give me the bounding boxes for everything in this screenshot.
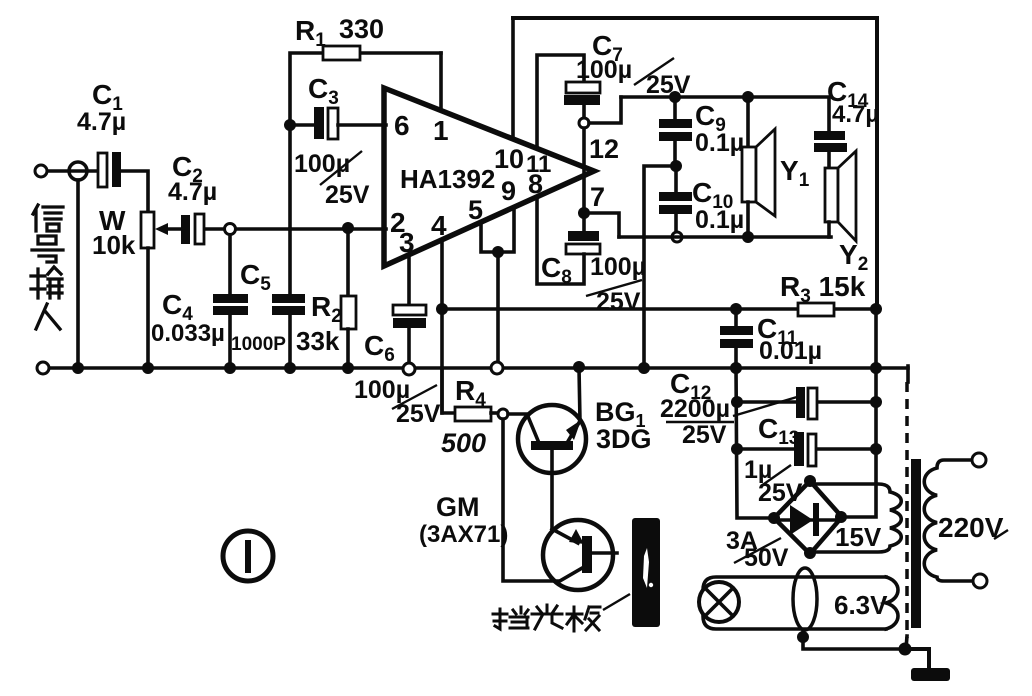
wire C2 to node [205,227,224,231]
speaker Y2 [825,168,838,222]
figure mark circled 1 [223,531,273,581]
transformer core [911,459,921,628]
svg-text:8: 8 [528,169,543,199]
junction W bottom [142,362,154,374]
transistor Q1 BG1 [518,405,586,473]
svg-text:4.7µ: 4.7µ [77,108,126,136]
pointer to shield [603,594,630,610]
wire lamp to ground [797,631,809,643]
svg-text:50V: 50V [744,544,789,572]
wire BG1 collector from rail [573,361,585,373]
capacitor C14 [814,131,845,140]
wire C1 to W [121,171,148,212]
capacitor C13 [731,443,743,455]
svg-text:4.7µ: 4.7µ [832,101,879,128]
pin7 node [578,207,590,219]
wire GM collector loop [503,419,558,581]
wire pin11 to C7 loop [537,55,584,147]
svg-text:4: 4 [431,210,447,241]
wire C4 bottom [228,315,232,368]
wire pin3 to C6 [407,256,411,305]
wire C7 to pin12 node [582,105,586,118]
capacitor C2 [181,215,190,244]
input connector circle [69,162,87,180]
lamp envelope ellipse [793,568,817,630]
svg-text:(3AX71): (3AX71) [419,521,508,548]
wire pin12 step to top rail [589,97,621,123]
svg-text:330: 330 [339,14,384,44]
wire pin10 to box [511,18,515,138]
junction C5 bottom [284,362,296,374]
svg-text:HA1392: HA1392 [400,164,495,194]
wire W bottom [146,248,150,368]
resistor R4 [442,368,455,413]
svg-text:15V: 15V [835,522,882,552]
wire node drop to C4 [228,235,232,294]
svg-text:25V: 25V [396,400,441,428]
bottom inner rail [619,235,831,239]
wire rail corner to shield [906,366,910,382]
pin12 node open circle [579,118,589,128]
bridge rectifier [774,481,842,554]
svg-text:100µ: 100µ [576,56,632,84]
capacitor C4 [213,294,248,303]
svg-text:0.01µ: 0.01µ [759,337,822,365]
svg-text:25V: 25V [646,71,691,99]
light shield bar [632,518,660,627]
wire C3 to pin6 [338,123,386,127]
wire right column [842,309,876,517]
capacitor C9 [669,91,681,103]
svg-text:3: 3 [399,227,415,258]
svg-text:10k: 10k [92,230,136,260]
svg-text:3DG: 3DG [596,424,652,454]
speaker Y1 [742,91,754,103]
diode inside bridge [779,518,837,522]
svg-text:6: 6 [394,110,410,141]
svg-text:7: 7 [590,182,605,212]
svg-text:100µ: 100µ [590,253,646,281]
svg-text:2200µ: 2200µ [660,395,730,423]
wire input to C1 [48,169,97,173]
feedback rail R3 [442,307,876,311]
svg-text:9: 9 [501,176,516,206]
wire U drop [496,252,500,362]
terminal 220V top [972,453,986,467]
capacitor C10 [674,166,678,192]
winding 15V secondary [809,484,901,552]
text light shield [493,605,600,631]
wire pin7 step down [584,213,619,237]
junction R2 bottom [342,362,354,374]
capacitor C3 [290,123,314,127]
svg-text:R3 15k: R3 15k [780,271,866,307]
text signal input vertical [31,205,63,329]
svg-text:100µ: 100µ [294,150,350,178]
node C3 tap [284,119,296,131]
capacitor C7 [566,82,600,93]
capacitor C5 [272,294,305,303]
svg-text:6.3V: 6.3V [834,590,888,620]
resistor R1 [359,51,441,55]
top rail 25V [621,97,829,131]
W wiper arrow [162,227,181,231]
svg-text:0.1µ: 0.1µ [695,129,744,157]
svg-text:5: 5 [468,195,483,225]
svg-text:1000P: 1000P [231,334,286,355]
ground [905,649,929,670]
wire pin4 vertical [440,241,444,413]
svg-text:12: 12 [589,134,619,164]
wire R1 left branch vertical [290,53,323,229]
box top wire pin10 route [513,18,877,309]
wire mid rail to pin2 [236,227,386,231]
wire node left drop [644,166,676,368]
svg-text:500: 500 [441,428,486,458]
wire C8 bottom to pin8 [537,197,584,284]
junction C4 bottom [224,362,236,374]
potentiometer W [141,212,154,248]
svg-text:25V: 25V [596,288,641,316]
transistor Q2 GM [543,520,613,590]
capacitor C12 [731,396,743,408]
shield dashed line [905,382,909,638]
junction input drop [72,362,84,374]
capacitor C1 [98,153,107,187]
wire C12 left column [736,368,774,518]
op-amp U1 HA1392 triangle [384,88,594,266]
svg-text:4.7µ: 4.7µ [168,178,217,206]
node C9 C10 [670,160,682,172]
wire input left drop [76,180,80,368]
svg-text:25V: 25V [682,421,727,449]
winding 220V primary [924,460,972,581]
svg-text:0.033µ: 0.033µ [151,320,225,347]
svg-text:GM: GM [436,492,480,522]
node input open circle [225,224,236,235]
lamp tube loop 6.3V [703,577,886,629]
node R4 right open circle [498,409,508,419]
bottom rail [49,366,908,370]
lamp [699,582,739,622]
pointer C12 label [733,397,797,416]
svg-text:1: 1 [433,115,449,146]
capacitor C6 [393,305,426,315]
svg-text:25V: 25V [325,181,370,209]
input terminal top [35,165,47,177]
svg-text:10: 10 [494,144,524,174]
capacitor C11 [730,303,742,315]
svg-text:25V: 25V [758,479,803,507]
wire pin5 pin9 U [481,208,514,252]
resistor R2 [342,222,354,234]
wire R1 right to pin1 [439,53,443,108]
capacitor C8 [582,213,586,232]
wire C5 vertical [288,229,292,294]
resistor R3 [798,303,834,316]
svg-text:0.1µ: 0.1µ [695,206,744,234]
wire pin12 vertical [582,128,586,213]
svg-text:33k: 33k [296,326,340,356]
terminal 220V bottom [973,574,987,588]
